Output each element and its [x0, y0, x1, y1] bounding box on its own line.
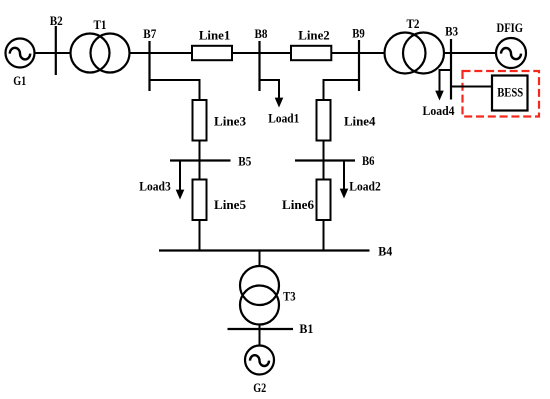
bus B8 [258, 41, 260, 91]
svg-text:T1: T1 [94, 17, 107, 32]
wire T1 to Line1 [130, 52, 193, 54]
wire T2 to DFIG [444, 52, 496, 54]
load Load1 arrow [275, 98, 284, 108]
bus B9 [358, 40, 360, 91]
wire B4 to T3 [259, 251, 261, 267]
svg-text:B8: B8 [255, 26, 268, 41]
line Line2 [291, 46, 331, 60]
wire B3 branch Load4 [440, 70, 452, 92]
svg-text:Line5: Line5 [214, 197, 246, 212]
wire B7 branch to Line3 [150, 80, 200, 100]
svg-text:G1: G1 [13, 73, 26, 88]
wire G1 to T1 [35, 52, 71, 54]
svg-text:Line4: Line4 [344, 114, 376, 129]
svg-text:B6: B6 [362, 153, 375, 168]
line Line1 [192, 46, 232, 60]
transformer T2 [385, 33, 445, 74]
bus B3 [450, 39, 452, 100]
wire B5 to Line5 [199, 161, 201, 180]
svg-text:Load2: Load2 [349, 179, 381, 194]
load Load4 arrow [435, 91, 444, 101]
svg-text:Load4: Load4 [423, 103, 455, 118]
wire Line3 to B5 [199, 141, 201, 161]
wire B3 to BESS [451, 86, 492, 88]
svg-text:Load1: Load1 [268, 111, 299, 126]
bus B7 [148, 41, 150, 91]
bus B1 [228, 328, 294, 330]
transformer T1 [71, 34, 130, 73]
line Line4 [317, 100, 331, 141]
wire Line2 to T2 [331, 52, 384, 54]
line Line5 [193, 180, 207, 221]
line Line3 [193, 100, 207, 141]
bus B4 [159, 249, 370, 251]
svg-text:T2: T2 [407, 16, 420, 31]
svg-text:Line1: Line1 [199, 28, 231, 43]
svg-text:Line3: Line3 [214, 114, 246, 129]
bus B6 [295, 159, 355, 161]
wire B9 branch to Line4 [324, 80, 360, 100]
load Load3 arrow [176, 161, 185, 200]
generator G2 [245, 346, 274, 375]
svg-text:Line2: Line2 [298, 28, 330, 43]
line Line6 [317, 180, 331, 221]
svg-text:B1: B1 [299, 321, 313, 336]
wire Line1 to Line2 [232, 52, 291, 54]
svg-text:B2: B2 [50, 13, 63, 28]
battery BESS box [492, 76, 528, 111]
bus B5 [170, 159, 231, 161]
svg-text:B4: B4 [378, 244, 392, 259]
svg-text:Load3: Load3 [139, 179, 171, 194]
wire B6 to Line6 [323, 161, 325, 180]
wire Line6 to B4 [323, 220, 325, 251]
generator DFIG [496, 38, 526, 68]
transformer T3 [240, 266, 279, 325]
svg-text:G2: G2 [253, 380, 266, 395]
wire Line4 to B6 [323, 141, 325, 161]
svg-text:T3: T3 [283, 289, 296, 304]
wire B1 to G2 [259, 329, 261, 346]
svg-text:B7: B7 [143, 26, 156, 41]
red dashed BESS enclosure [463, 71, 540, 117]
svg-text:B5: B5 [238, 154, 251, 169]
wire Line5 to B4 [199, 220, 201, 251]
svg-text:BESS: BESS [497, 85, 523, 100]
load Load2 arrow [340, 161, 349, 199]
svg-text:DFIG: DFIG [497, 20, 524, 35]
generator G1 [6, 39, 35, 68]
bus B2 [55, 26, 57, 75]
svg-text:B9: B9 [352, 26, 365, 41]
wire B8 branch Load1 [260, 80, 280, 99]
svg-text:Line6: Line6 [282, 197, 314, 212]
svg-text:B3: B3 [445, 24, 458, 39]
wire T3 to B1 [259, 325, 261, 330]
